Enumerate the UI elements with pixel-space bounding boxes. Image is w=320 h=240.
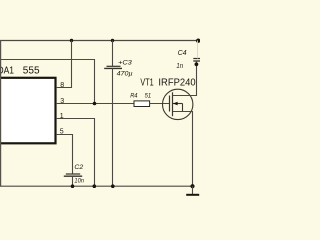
substrate arrow line	[173, 103, 183, 105]
capacitor C3 electrolytic	[112, 41, 114, 67]
svg-text:IRFP240: IRFP240	[158, 78, 196, 89]
svg-text:555: 555	[23, 66, 40, 77]
IC DA1 555 timer box	[0, 78, 56, 144]
svg-text:C4: C4	[178, 48, 187, 57]
resistor R4	[134, 101, 150, 107]
node junction dot on rail at x=112.5	[111, 39, 114, 42]
ground symbol	[192, 186, 194, 194]
node junction dot on rail at x=71.5	[70, 39, 73, 42]
node junction dot drain/C4	[195, 62, 199, 66]
svg-text:R4: R4	[130, 92, 138, 99]
wire pin 1 to ground rail	[57, 119, 95, 187]
svg-text:+C3: +C3	[118, 60, 132, 67]
wire pin 8 to rail	[57, 41, 72, 88]
channel bar	[172, 92, 174, 116]
wire: bottom ground rail	[0, 185, 193, 187]
drain line to C4 node	[173, 64, 197, 95]
wire: top +supply rail	[0, 40, 199, 42]
svg-text:10n: 10n	[74, 178, 84, 185]
wire: pins 2/6 feedback line going off left edge	[0, 60, 95, 104]
node junction dot C3/rail	[111, 184, 115, 188]
wire C4 top to rail	[197, 41, 199, 59]
node junction dot source/rail	[190, 184, 194, 188]
svg-text:C2: C2	[74, 164, 83, 171]
svg-text:DA1: DA1	[0, 66, 14, 77]
wire pin 3 output to gate resistor	[57, 103, 134, 105]
svg-text:51: 51	[145, 92, 152, 99]
wire: cropped left-edge vertical wire	[0, 41, 2, 187]
wire C2 to ground rail	[72, 176, 74, 186]
node junction dot C2/rail	[71, 184, 75, 188]
capacitor C2	[66, 173, 80, 175]
mosfet body circle	[163, 89, 193, 119]
source line to ground	[173, 112, 193, 187]
wire C3 to ground rail	[112, 68, 114, 186]
wire R4 to gate	[150, 103, 170, 105]
node junction dot on rail right end	[196, 39, 200, 43]
node junction dot pin3/feedback	[93, 102, 97, 106]
node junction dot pin1/rail	[93, 184, 97, 188]
svg-text:1n: 1n	[176, 61, 183, 70]
wire C4 bottom to drain node	[196, 61, 198, 64]
wire pin 5 to C2	[57, 135, 73, 174]
svg-text:VT1: VT1	[140, 78, 154, 89]
svg-text:470µ: 470µ	[117, 70, 133, 77]
capacitor C4	[193, 58, 200, 60]
gate bar	[169, 96, 171, 112]
